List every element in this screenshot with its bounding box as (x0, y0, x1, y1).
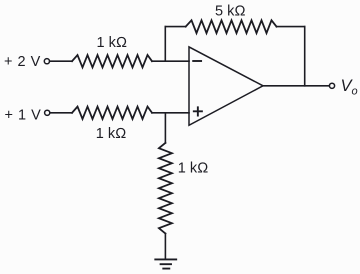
wire from R2 to op-amp non-inverting input (node B) (152, 112, 189, 114)
op-amp U1 triangle (189, 47, 263, 125)
wire from R1 to op-amp inverting input (node A) (152, 60, 189, 62)
svg-text:5 kΩ: 5 kΩ (215, 3, 245, 19)
resistor R4 1 kOhm to ground (159, 143, 172, 234)
resistor R2 1 kOhm (72, 107, 152, 119)
terminal Vo output (329, 83, 334, 88)
terminal +2V input (44, 59, 49, 64)
svg-text:1 kΩ: 1 kΩ (178, 161, 208, 177)
terminal +1V input (45, 110, 50, 115)
wire feedback left vertical from node A up (164, 27, 166, 62)
svg-text:1 kΩ: 1 kΩ (96, 126, 126, 142)
wire feedback right vertical down to output node (304, 27, 306, 86)
wire from +2V terminal to R1 (50, 60, 72, 62)
svg-text:+ 2 V: + 2 V (4, 54, 41, 70)
svg-text:Vo: Vo (341, 77, 358, 98)
wire from R4 to ground (164, 234, 166, 260)
wire feedback top left to R3 (165, 26, 185, 28)
svg-text:+ 1 V: + 1 V (5, 108, 42, 124)
ground symbol (155, 259, 176, 268)
wire from node B down to R4 (164, 113, 166, 143)
wire from R3 to feedback right corner (277, 26, 305, 28)
op-amp non-inverting input plus sign (194, 107, 202, 115)
wire from +1V terminal to R2 (50, 112, 72, 114)
resistor R3 5 kOhm feedback (186, 20, 277, 33)
wire op-amp output to Vo terminal (263, 85, 329, 87)
resistor R1 1 kOhm (72, 55, 152, 67)
svg-text:1 kΩ: 1 kΩ (97, 35, 127, 51)
op-amp inverting input minus sign (193, 60, 201, 62)
